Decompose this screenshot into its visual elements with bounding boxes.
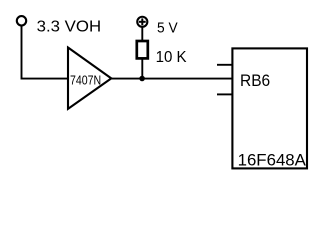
- svg-text:16F648A: 16F648A: [238, 150, 307, 169]
- pin stub below RB6: [217, 93, 232, 95]
- wire resistor to junction: [141, 58, 143, 78]
- resistor R1: [137, 41, 148, 58]
- wire terminal to buffer input: [22, 26, 69, 79]
- pin stub above RB6: [217, 64, 232, 66]
- svg-text:5 V: 5 V: [157, 20, 178, 37]
- label 10 K: [156, 49, 187, 66]
- wire buffer output to IC pin RB6: [111, 78, 232, 80]
- svg-text:10 K: 10 K: [156, 49, 187, 66]
- IC U2 16F648A body: [232, 48, 307, 168]
- power symbol +5V: [137, 17, 147, 27]
- wire power to resistor: [141, 27, 143, 41]
- svg-text:3.3 VOH: 3.3 VOH: [37, 19, 102, 36]
- junction dot: [139, 76, 145, 82]
- svg-text:7407N: 7407N: [70, 73, 101, 88]
- label 3.3 VOH: [37, 19, 102, 36]
- label 16F648A: [238, 150, 307, 169]
- label 5 V: [157, 20, 178, 37]
- terminal J1 (3.3V source): [17, 16, 26, 25]
- svg-text:RB6: RB6: [240, 72, 270, 90]
- buffer U1 7407N: [68, 48, 111, 109]
- label 7407N: [70, 73, 101, 88]
- pin label RB6: [240, 72, 270, 90]
